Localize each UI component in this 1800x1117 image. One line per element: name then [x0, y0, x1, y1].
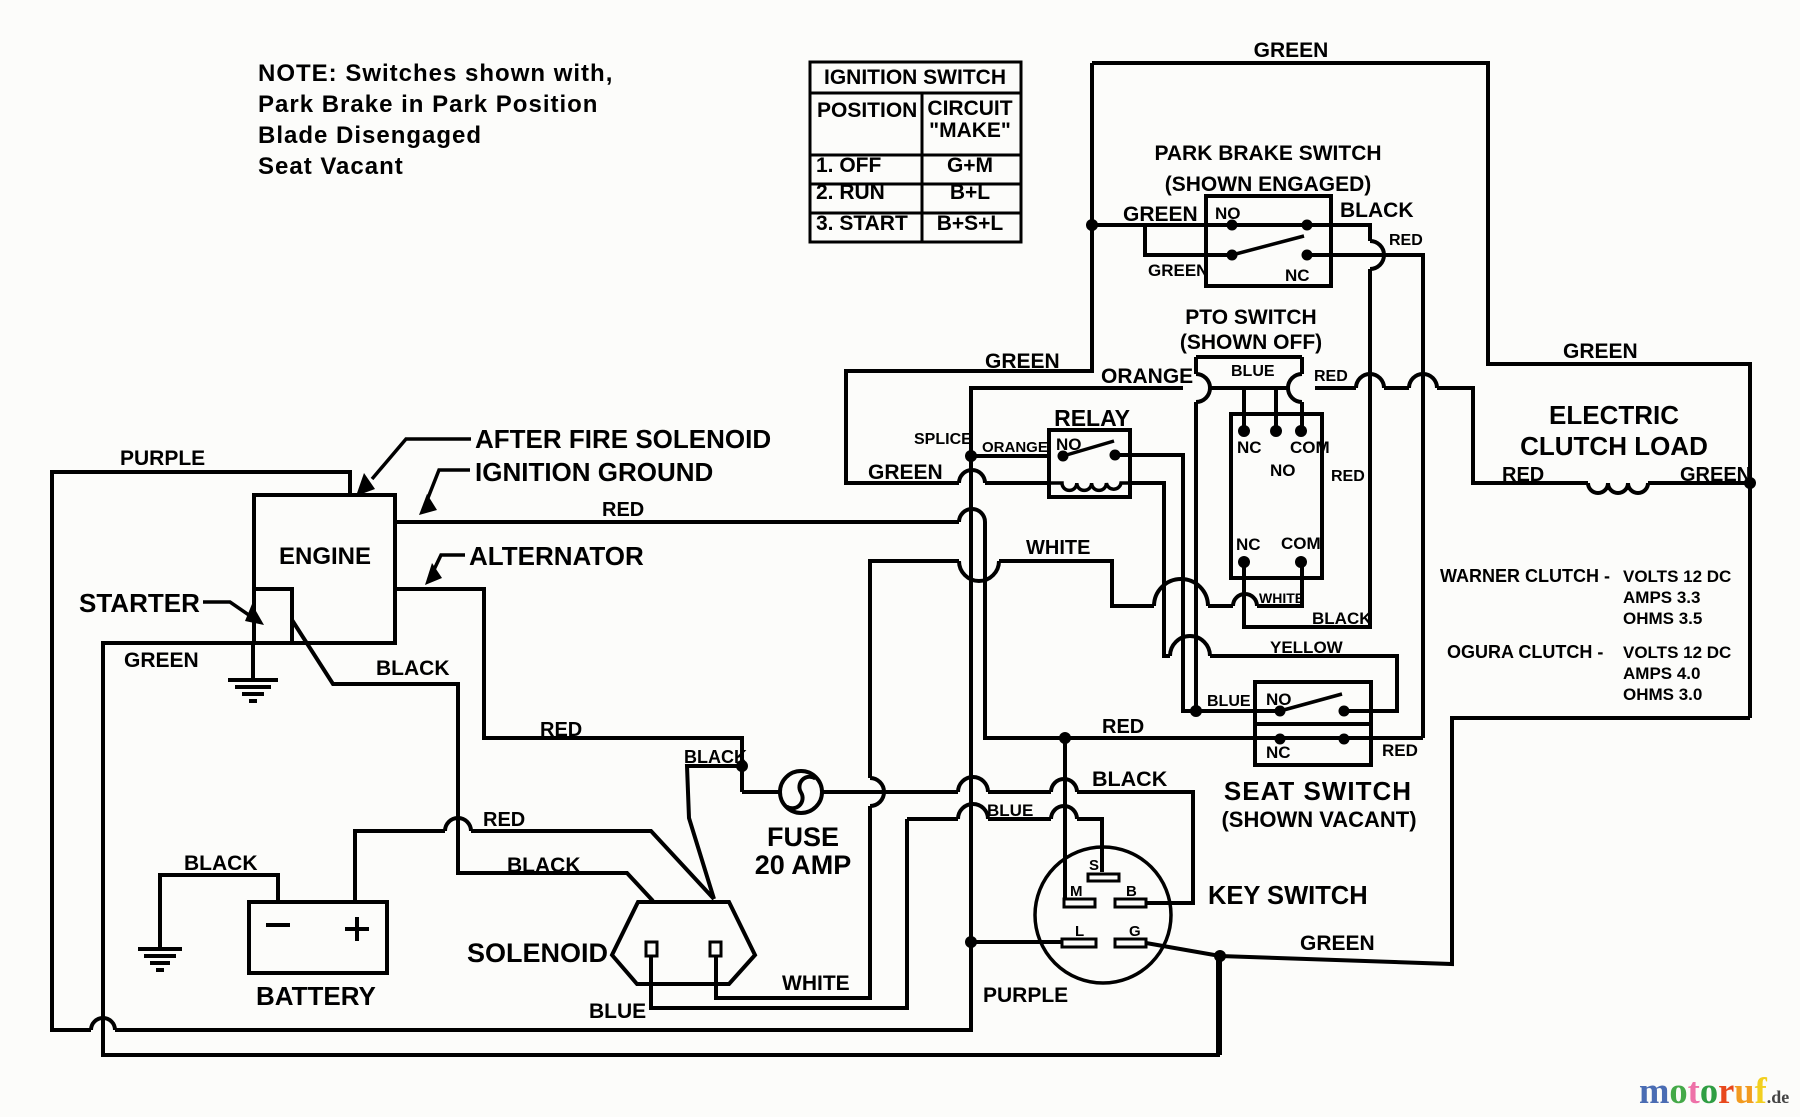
svg-text:CLUTCH LOAD: CLUTCH LOAD — [1520, 431, 1708, 461]
svg-text:PARK BRAKE SWITCH: PARK BRAKE SWITCH — [1154, 142, 1381, 165]
key terminal b — [1115, 899, 1146, 907]
wire purple bottom — [115, 458, 971, 1030]
svg-text:GREEN: GREEN — [1148, 261, 1208, 280]
svg-text:BLACK: BLACK — [684, 747, 747, 767]
key switch circle — [1035, 847, 1171, 983]
svg-text:WHITE: WHITE — [1259, 590, 1304, 606]
contact dot seat no left — [1275, 706, 1286, 717]
wire fuse right — [822, 790, 958, 794]
svg-text:OHMS 3.5: OHMS 3.5 — [1623, 609, 1702, 628]
wire white middle — [999, 561, 1154, 606]
contact dot seat nc right — [1339, 734, 1350, 745]
svg-text:RED: RED — [1102, 716, 1144, 738]
contact dot pto com bottom — [1295, 556, 1307, 568]
svg-text:ALTERNATOR: ALTERNATOR — [469, 541, 644, 571]
svg-text:GREEN: GREEN — [1254, 39, 1329, 62]
battery plus symbol — [345, 917, 369, 941]
wire white to pto com — [1257, 562, 1302, 606]
svg-text:NO: NO — [1215, 204, 1241, 223]
wire red mid — [1384, 386, 1409, 390]
hop blue pi left over orange — [1196, 374, 1210, 402]
svg-text:WHITE: WHITE — [1026, 537, 1090, 559]
svg-text:S: S — [1089, 857, 1099, 874]
svg-text:SEAT SWITCH: SEAT SWITCH — [1224, 776, 1412, 806]
hop black vertical over red — [1370, 241, 1384, 269]
svg-text:VOLTS 12 DC: VOLTS 12 DC — [1623, 643, 1731, 662]
wire red to clutch — [1437, 388, 1588, 483]
junction dot purple l — [965, 936, 977, 948]
svg-text:PURPLE: PURPLE — [120, 447, 205, 470]
wire white right — [1208, 604, 1233, 608]
clutch coil — [1588, 483, 1648, 493]
svg-text:BLUE: BLUE — [1207, 693, 1251, 710]
hop red engine over purple — [959, 509, 985, 522]
junction dot blue seat — [1190, 705, 1202, 717]
svg-text:BLACK: BLACK — [376, 657, 450, 680]
wire blue pi top — [1196, 357, 1302, 374]
hop green coil over purple — [959, 470, 985, 483]
svg-text:M: M — [1070, 883, 1083, 900]
arrowhead ignition ground — [419, 494, 437, 515]
svg-text:GREEN: GREEN — [124, 649, 199, 672]
svg-text:BLACK: BLACK — [184, 852, 258, 875]
hop white vertical over fuse wire — [870, 778, 884, 806]
svg-text:WHITE: WHITE — [782, 972, 850, 995]
hop white over pto nc wire — [1233, 594, 1257, 606]
leader starter — [203, 602, 256, 620]
battery box — [249, 902, 387, 973]
svg-text:NC: NC — [1236, 535, 1261, 554]
hop fuse over purple — [958, 777, 988, 792]
svg-text:BLACK: BLACK — [507, 854, 581, 877]
svg-text:NC: NC — [1285, 266, 1310, 285]
svg-text:IGNITION SWITCH: IGNITION SWITCH — [824, 66, 1006, 89]
svg-text:Blade Disengaged: Blade Disengaged — [258, 122, 482, 149]
hop yellow over two verticals — [1170, 636, 1210, 656]
junction dot park brake green — [1086, 219, 1098, 231]
svg-text:YELLOW: YELLOW — [1270, 638, 1344, 657]
ignition switch table — [810, 62, 1021, 242]
svg-text:OGURA CLUTCH -: OGURA CLUTCH - — [1447, 642, 1603, 662]
junction dot green key — [1214, 950, 1226, 962]
wire white solenoid — [716, 806, 870, 998]
wire red pto right — [1315, 386, 1356, 390]
wire green key down — [1218, 956, 1222, 1055]
svg-text:RED: RED — [540, 719, 582, 741]
svg-text:VOLTS 12 DC: VOLTS 12 DC — [1623, 567, 1731, 586]
svg-text:"MAKE": "MAKE" — [929, 119, 1011, 142]
wire red engine — [395, 520, 959, 524]
svg-text:BLACK: BLACK — [1312, 609, 1372, 628]
fuse circle — [780, 771, 822, 813]
wire purple top — [52, 472, 350, 1030]
wire black starter — [292, 620, 653, 901]
park brake box — [1206, 196, 1331, 286]
wire red battery diagonal — [471, 831, 714, 899]
park brake blade — [1232, 236, 1304, 255]
svg-text:IGNITION GROUND: IGNITION GROUND — [475, 457, 713, 487]
svg-text:ORANGE: ORANGE — [1101, 365, 1193, 388]
svg-text:ORANGE: ORANGE — [982, 439, 1048, 456]
svg-text:BLUE: BLUE — [987, 801, 1033, 820]
wire orange splice — [971, 388, 1183, 456]
svg-text:RED: RED — [1331, 468, 1365, 485]
wire blue left — [907, 817, 958, 821]
leader ignition ground — [424, 470, 470, 508]
svg-text:3. START: 3. START — [816, 212, 908, 235]
contact dot park no left — [1227, 220, 1238, 231]
svg-text:2. RUN: 2. RUN — [816, 181, 885, 204]
leader after fire solenoid — [372, 439, 471, 479]
svg-text:G: G — [1129, 923, 1141, 940]
key terminal l — [1062, 939, 1096, 947]
hop red over black vertical — [1356, 374, 1384, 388]
hop blue pi right over orange — [1288, 374, 1302, 402]
motoruf logo — [1639, 1070, 1789, 1111]
svg-text:GREEN: GREEN — [985, 350, 1060, 373]
fuse element — [787, 777, 816, 809]
wire orange to pto — [1209, 386, 1289, 390]
wire green top — [1092, 63, 1750, 718]
contact dot relay left — [1058, 451, 1069, 462]
wire green engine — [103, 643, 1218, 1055]
wire blue solenoid — [651, 819, 907, 1008]
svg-text:GREEN: GREEN — [1300, 932, 1375, 955]
relay coil — [1049, 483, 1130, 490]
wire black to park brake — [1307, 225, 1370, 241]
solenoid body — [612, 902, 755, 984]
junction dot red m — [1059, 732, 1071, 744]
contact dot park nc right — [1302, 250, 1313, 261]
wire red m terminal — [1063, 738, 1067, 899]
svg-text:B+L: B+L — [950, 181, 990, 204]
seat switch blade — [1280, 694, 1342, 711]
contact dot park nc left — [1227, 250, 1238, 261]
arrowhead starter — [245, 604, 264, 625]
svg-text:1. OFF: 1. OFF — [816, 154, 882, 177]
wire fuse mid — [988, 790, 1051, 794]
svg-text:BLACK: BLACK — [1340, 199, 1414, 222]
relay box — [1049, 430, 1130, 497]
hop white over three verticals — [1154, 579, 1208, 606]
contact dot seat nc left — [1275, 734, 1286, 745]
seat switch divider — [1255, 722, 1371, 726]
arrowhead after fire solenoid — [356, 473, 375, 496]
svg-text:COM: COM — [1281, 534, 1321, 553]
wire red engine down — [985, 522, 1423, 738]
relay blade — [1063, 441, 1114, 456]
junction dot black fuse — [736, 760, 748, 772]
wire blue mid — [988, 817, 1051, 821]
junction dot clutch green — [1744, 477, 1756, 489]
wire pto nc stub — [1242, 388, 1246, 431]
pto switch box — [1231, 414, 1322, 578]
svg-text:(SHOWN ENGAGED): (SHOWN ENGAGED) — [1165, 173, 1372, 196]
svg-text:SOLENOID: SOLENOID — [467, 938, 608, 968]
wire green park nc loop — [1145, 225, 1232, 255]
svg-text:PURPLE: PURPLE — [983, 984, 1068, 1007]
svg-text:BLACK: BLACK — [1092, 767, 1168, 791]
svg-text:PTO SWITCH: PTO SWITCH — [1185, 306, 1316, 329]
svg-text:ENGINE: ENGINE — [279, 543, 371, 570]
svg-text:RED: RED — [483, 809, 525, 831]
wire white up — [870, 561, 959, 778]
svg-text:KEY SWITCH: KEY SWITCH — [1208, 882, 1368, 910]
wire fuse left — [742, 790, 780, 794]
svg-text:NC: NC — [1237, 438, 1262, 457]
hop red battery over black — [445, 818, 471, 831]
svg-text:NO: NO — [1056, 435, 1082, 454]
wire green park no — [1092, 223, 1307, 227]
wire blue key s — [1077, 819, 1102, 872]
seat switch box — [1255, 682, 1371, 765]
wire purple key l — [972, 940, 1062, 944]
contact dot pto nc top — [1238, 425, 1250, 437]
svg-text:BLUE: BLUE — [589, 1000, 646, 1023]
svg-text:(SHOWN VACANT): (SHOWN VACANT) — [1221, 807, 1416, 832]
svg-text:RED: RED — [1382, 741, 1418, 760]
svg-text:COM: COM — [1290, 438, 1330, 457]
hop white under purple and red — [959, 561, 999, 581]
wire green clutch — [1648, 481, 1750, 485]
wire alternator red — [395, 589, 742, 792]
svg-text:motoruf.de: motoruf.de — [1639, 1070, 1789, 1111]
wire blue pi left leg — [1194, 402, 1198, 711]
hop blue over m wire — [1051, 806, 1077, 819]
wire yellow relay coil — [1130, 483, 1170, 656]
svg-text:NO: NO — [1266, 690, 1292, 709]
svg-text:GREEN: GREEN — [1563, 340, 1638, 363]
arrowhead alternator — [425, 563, 442, 585]
wire green key g — [1146, 718, 1750, 964]
starter box — [254, 589, 292, 643]
svg-text:NC: NC — [1266, 743, 1291, 762]
wire black to key b — [1077, 792, 1193, 903]
svg-text:L: L — [1075, 923, 1084, 940]
contact dot seat no right — [1339, 706, 1350, 717]
svg-text:OHMS 3.0: OHMS 3.0 — [1623, 685, 1702, 704]
hop purple over green — [91, 1018, 115, 1030]
solenoid terminal left — [646, 942, 657, 956]
key terminal s — [1088, 874, 1119, 881]
svg-text:20 AMP: 20 AMP — [755, 850, 852, 880]
engine box — [254, 495, 395, 643]
svg-text:Seat Vacant: Seat Vacant — [258, 153, 404, 180]
svg-text:POSITION: POSITION — [817, 99, 917, 122]
svg-text:NO: NO — [1270, 461, 1296, 480]
svg-text:RELAY: RELAY — [1054, 405, 1130, 431]
svg-text:CIRCUIT: CIRCUIT — [927, 97, 1012, 120]
ground symbol engine — [228, 643, 278, 701]
junction dot splice — [965, 450, 977, 462]
svg-text:NOTE: Switches shown with,: NOTE: Switches shown with, — [258, 60, 613, 87]
wire black pto nc — [1244, 269, 1370, 627]
svg-text:SPLICE: SPLICE — [914, 431, 972, 448]
svg-text:RED: RED — [1314, 368, 1348, 385]
svg-text:FUSE: FUSE — [767, 822, 839, 852]
svg-text:WARNER CLUTCH -: WARNER CLUTCH - — [1440, 566, 1610, 586]
svg-text:AFTER FIRE SOLENOID: AFTER FIRE SOLENOID — [475, 424, 771, 454]
svg-text:Park Brake in Park Position: Park Brake in Park Position — [258, 91, 598, 118]
svg-text:BLUE: BLUE — [1231, 363, 1275, 380]
svg-text:STARTER: STARTER — [79, 588, 200, 618]
key terminal g — [1115, 939, 1146, 947]
hop fuse over m wire — [1051, 779, 1077, 792]
svg-text:AMPS 3.3: AMPS 3.3 — [1623, 588, 1700, 607]
wire black fuse junction — [687, 766, 742, 899]
svg-text:GREEN: GREEN — [868, 461, 943, 484]
svg-text:(SHOWN OFF): (SHOWN OFF) — [1180, 331, 1322, 354]
svg-text:RED: RED — [1502, 464, 1544, 486]
contact dot pto no top — [1270, 425, 1282, 437]
svg-text:GREEN: GREEN — [1123, 203, 1198, 226]
contact dot park no right — [1302, 220, 1313, 231]
wire red park nc — [1307, 255, 1423, 738]
svg-text:GREEN: GREEN — [1680, 464, 1751, 486]
contact dot relay right — [1110, 450, 1121, 461]
svg-text:BATTERY: BATTERY — [256, 981, 376, 1011]
svg-text:B: B — [1126, 883, 1137, 900]
wire yellow right — [1210, 656, 1397, 711]
wire pto no stub — [1274, 388, 1278, 431]
wire blue pi right leg — [1300, 402, 1304, 431]
wire relay no out — [1115, 455, 1280, 711]
svg-text:ELECTRIC: ELECTRIC — [1549, 400, 1679, 430]
wire green park vertical — [846, 63, 1092, 483]
wire red battery — [355, 831, 445, 902]
hop red over red vertical — [1409, 374, 1437, 388]
wire black battery ground — [160, 875, 278, 949]
svg-text:G+M: G+M — [947, 154, 993, 177]
wire green to relay coil — [985, 481, 1049, 485]
svg-text:RED: RED — [602, 499, 644, 521]
hop blue over purple and red — [958, 804, 988, 819]
battery minus symbol — [266, 923, 290, 927]
svg-text:AMPS 4.0: AMPS 4.0 — [1623, 664, 1700, 683]
svg-text:RED: RED — [1389, 232, 1423, 249]
svg-text:B+S+L: B+S+L — [937, 212, 1004, 235]
key terminal m — [1064, 899, 1095, 907]
solenoid terminal right — [710, 942, 721, 956]
ground symbol battery — [138, 949, 182, 970]
contact dot pto nc bottom — [1238, 556, 1250, 568]
contact dot pto com top — [1295, 425, 1307, 437]
wire orange relay — [971, 454, 1049, 458]
leader alternator — [430, 555, 465, 578]
